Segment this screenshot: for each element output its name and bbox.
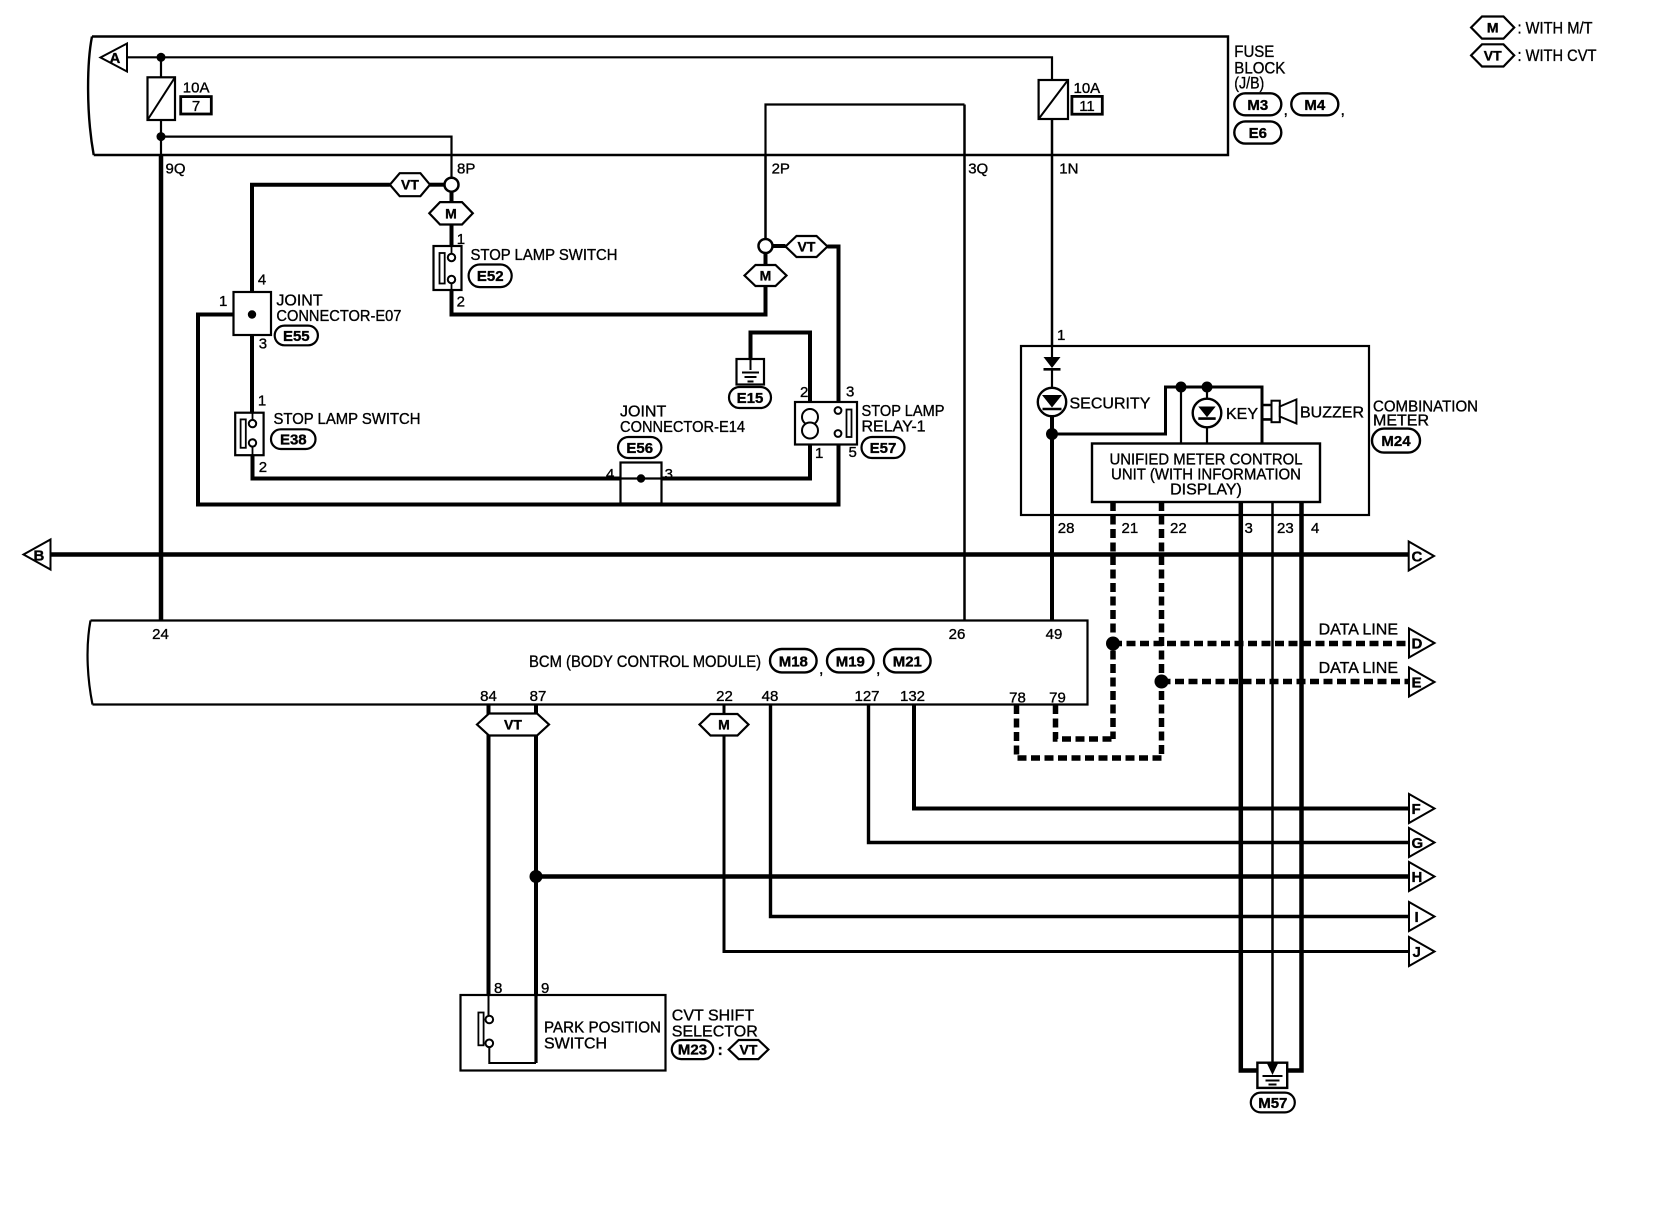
key indicator LED [1193,387,1259,444]
svg-text:DATA LINE: DATA LINE [1319,660,1398,677]
CVT shift selector label [672,1008,769,1060]
wire meter pin 23 to ground M57 [1271,502,1274,1064]
tag VT at 8P [390,173,445,196]
svg-text:11: 11 [1079,98,1095,115]
svg-text:BUZZER: BUZZER [1300,405,1364,422]
wire meter pin 3 to ground M57 [1241,502,1258,1071]
svg-text:M57: M57 [1258,1095,1287,1112]
svg-text:C: C [1412,549,1423,566]
svg-text:VT: VT [401,177,419,193]
stop lamp switch E52 [434,246,618,290]
svg-text:CONNECTOR-E14: CONNECTOR-E14 [620,419,745,436]
svg-text:3: 3 [259,336,267,353]
svg-text:22: 22 [1170,520,1187,537]
arrow B [24,540,51,570]
wire E56 pin 3 to relay pin 1 [662,445,811,479]
BCM box [88,621,1088,705]
jumper 2P to 3Q inside fuse block [766,105,965,156]
connector circle 2P [759,239,773,253]
svg-text:4: 4 [606,466,614,483]
tag M at 8P [429,192,473,246]
buzzer [1272,400,1365,424]
svg-text:9Q: 9Q [166,161,186,178]
svg-text:DISPLAY): DISPLAY) [1170,482,1242,499]
connector M24 [1372,429,1420,453]
svg-text:23: 23 [1277,520,1294,537]
wire to unified meter control unit left [1180,387,1182,444]
svg-text:SWITCH: SWITCH [544,1036,607,1053]
svg-text:,: , [1284,102,1288,119]
tag VT below BCM pins 84 87 [477,714,549,736]
svg-text:M18: M18 [779,653,808,670]
svg-text:28: 28 [1058,520,1075,537]
svg-text:1: 1 [258,393,266,410]
tag VT at 2P [773,236,828,257]
svg-text:132: 132 [900,688,925,705]
svg-text:,: , [876,661,880,678]
arrow I [1409,902,1435,931]
junction node at fuse 7 top [157,53,166,62]
wire 3Q [963,105,966,621]
svg-text:87: 87 [530,688,547,705]
wire E55 pin 3 to E38 pin 1 [250,335,254,413]
svg-text:4: 4 [258,272,266,289]
ground E15 [729,333,810,409]
security indicator LED [1038,388,1151,416]
svg-text:E6: E6 [1249,125,1267,142]
wire VT to joint connector E55 pin 4 [252,185,390,311]
svg-text:E: E [1412,675,1422,692]
data line link pin 78 to pin 22 [1017,705,1162,758]
fuse block (J/B) outline [88,37,1228,156]
svg-text:JOINT: JOINT [620,404,666,421]
stop lamp switch E38 [235,411,420,455]
svg-text:E57: E57 [870,440,897,457]
wire meter pin 4 to ground M57 [1287,502,1302,1071]
svg-text:4: 4 [1311,520,1319,537]
svg-text:1N: 1N [1059,161,1078,178]
svg-text:1: 1 [815,445,823,462]
arrow E [1409,668,1435,697]
svg-text:M4: M4 [1304,97,1325,114]
wire BCM pin 22 to arrow J [724,705,1409,952]
svg-text:E55: E55 [283,328,310,345]
wire BCM pin 132 to arrow F [914,705,1409,809]
svg-text:M21: M21 [893,653,922,670]
wire security to pin 28 and BCM pin 49 [1050,416,1054,621]
svg-text:D: D [1412,636,1423,653]
wire BCM pin 127 to arrow G [869,705,1410,843]
park position switch [461,995,666,1071]
svg-text:VT: VT [740,1042,758,1058]
svg-text:M24: M24 [1381,433,1411,450]
wire 9Q [159,155,164,620]
svg-text:A: A [110,50,121,67]
svg-text:: WITH CVT: : WITH CVT [1518,46,1597,65]
wire to arrow H [536,874,1409,879]
rail B to C [51,552,1409,557]
arrow J [1409,937,1435,966]
svg-text:7: 7 [192,98,200,115]
svg-text:METER: METER [1373,413,1429,430]
arrow A [101,44,128,72]
arrow C [1409,542,1434,571]
connector M21 [884,649,931,672]
wire 2P [764,155,767,240]
wire fuse 7 to 8P [161,137,452,178]
svg-text:STOP LAMP: STOP LAMP [862,403,945,420]
arrow D [1409,629,1435,658]
svg-text:F: F [1412,801,1421,818]
svg-text:E52: E52 [477,268,504,285]
svg-text::: : [718,1042,723,1059]
junction node on pin 87 wire [530,870,543,883]
svg-text:H: H [1412,869,1423,886]
fuse 7 10A [148,57,212,155]
svg-text:M3: M3 [1247,97,1268,114]
junction node key rail right [1202,382,1213,393]
svg-text:2P: 2P [772,161,790,178]
svg-text:B: B [34,548,45,565]
junction node data line E [1155,675,1169,689]
svg-text:JOINT: JOINT [276,293,322,310]
wire E52 pin 2 to 2P [452,290,766,315]
wire 1N [1051,119,1054,346]
svg-text:J: J [1413,944,1421,961]
svg-text:: WITH M/T: : WITH M/T [1518,19,1593,38]
svg-text:79: 79 [1049,690,1066,707]
wire VT to stop lamp relay pin 3 [828,247,839,403]
combination meter box [1021,346,1369,515]
connector circle 8P [445,178,459,192]
junction node key rail left [1176,382,1187,393]
connector M19 [827,649,880,678]
svg-text:10A: 10A [1074,80,1101,97]
joint connector E07 E55 [219,272,401,353]
data line pin 21 shielded wire [1110,502,1116,739]
svg-text:10A: 10A [183,80,210,97]
data line E shielded wire [1162,679,1410,685]
svg-text:2: 2 [259,459,267,476]
unified meter control unit [1092,444,1320,503]
svg-text:BCM (BODY CONTROL MODULE): BCM (BODY CONTROL MODULE) [529,652,761,671]
svg-text:3: 3 [846,384,854,401]
svg-text:48: 48 [762,688,779,705]
fuse 11 10A [1039,80,1103,119]
svg-text:24: 24 [152,626,169,643]
junction node below security [1046,428,1058,440]
connector M18 [770,649,823,678]
wire A to fuse 11 [127,57,1052,80]
svg-text:1: 1 [1057,327,1065,344]
data line pin 22 shielded wire [1159,502,1165,758]
legend VT: WITH CVT [1471,44,1596,66]
svg-text:,: , [819,661,823,678]
svg-text:E15: E15 [737,390,764,407]
svg-text:DATA LINE: DATA LINE [1319,622,1398,639]
buzzer stubs [1262,405,1272,419]
arrowhead into ground [1267,1064,1278,1076]
svg-text:M: M [445,205,457,221]
svg-text:SELECTOR: SELECTOR [672,1024,758,1041]
arrow G [1409,828,1435,857]
wire E55 pin 1 to relay pin 5 [198,315,839,505]
diode inside meter [1044,346,1061,389]
svg-text:CONNECTOR-E07: CONNECTOR-E07 [276,308,401,325]
svg-text:STOP LAMP SWITCH: STOP LAMP SWITCH [274,411,421,428]
svg-text:VT: VT [1484,47,1502,63]
svg-text:PARK POSITION: PARK POSITION [544,1020,661,1037]
arrow F [1409,794,1435,823]
svg-text:8P: 8P [457,161,475,178]
svg-text:(J/B): (J/B) [1234,74,1264,93]
combination meter label [1373,399,1478,430]
svg-text:26: 26 [949,626,966,643]
svg-text:G: G [1412,835,1424,852]
svg-text:VT: VT [798,239,816,255]
fuse block label [1234,42,1286,93]
legend M: WITH M/T [1471,17,1592,39]
ground M57 [1251,1063,1295,1113]
tag M at 2P [745,253,787,317]
wire BCM pin 87 to park position switch pin 9 [534,705,538,996]
wire BCM pin 84 to park position switch pin 8 [487,705,491,996]
svg-text:CVT SHIFT: CVT SHIFT [672,1008,755,1025]
svg-text:78: 78 [1009,690,1026,707]
svg-text:E38: E38 [280,432,307,449]
junction node data line D [1106,637,1120,651]
junction node at fuse 7 bottom [157,132,166,141]
svg-text:84: 84 [480,688,497,705]
svg-text:E56: E56 [626,440,653,457]
connector M4 [1291,93,1345,119]
svg-text:22: 22 [716,688,733,705]
tag M below BCM pin 22 [700,714,749,736]
connector M3 [1234,93,1288,119]
svg-text:M: M [760,268,772,284]
svg-text:2: 2 [457,294,465,311]
svg-text:M23: M23 [678,1042,707,1059]
svg-text:M: M [1487,20,1499,36]
wire BCM pin 48 to arrow I [771,705,1410,917]
connector E6 [1234,121,1281,143]
svg-text:5: 5 [849,444,857,461]
svg-text:49: 49 [1046,626,1063,643]
data line link pin 79 to pin 21 [1056,705,1114,739]
data line D shielded wire [1113,641,1409,647]
svg-text:I: I [1415,909,1419,926]
wire branch to key and buzzer [1052,387,1262,444]
svg-text:KEY: KEY [1226,406,1258,423]
svg-text:STOP LAMP SWITCH: STOP LAMP SWITCH [471,247,618,264]
svg-text:M19: M19 [836,653,865,670]
svg-text:,: , [1341,102,1345,119]
svg-text:SECURITY: SECURITY [1070,396,1151,413]
svg-text:1: 1 [219,293,227,310]
svg-text:2: 2 [800,384,808,401]
svg-text:127: 127 [854,688,879,705]
svg-text:3Q: 3Q [968,161,988,178]
svg-text:M: M [718,717,730,733]
svg-text:3: 3 [1245,520,1253,537]
svg-text:RELAY-1: RELAY-1 [862,419,926,436]
stop lamp relay-1 E57 [795,384,945,463]
joint connector E14 E56 [606,404,745,504]
svg-text:21: 21 [1122,520,1139,537]
arrow H [1409,862,1435,891]
svg-text:VT: VT [504,717,522,733]
wire E38 pin 2 to joint connector E14 [253,455,621,478]
